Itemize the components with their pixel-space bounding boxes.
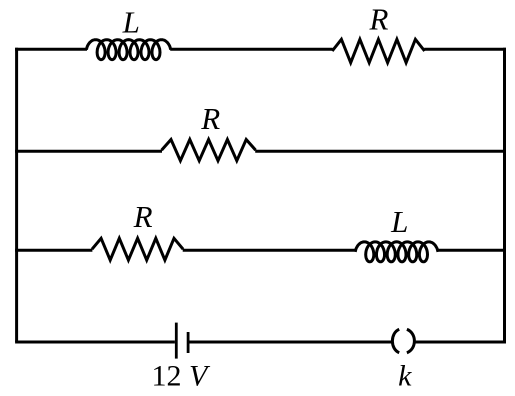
wire top-left segment: [15, 48, 87, 51]
wire top-middle segment: [170, 48, 332, 51]
wire right vertical: [503, 48, 506, 342]
wire bottom-left segment: [15, 341, 175, 344]
switch k left arc: [392, 329, 399, 353]
wire row3 middle segment: [183, 249, 356, 252]
svg-text:k: k: [398, 359, 412, 392]
battery B1 short plate: [187, 332, 190, 353]
inductor L1 coil: [86, 40, 170, 60]
wire bottom-middle segment: [190, 341, 393, 344]
wire row3 right segment: [437, 249, 506, 252]
svg-text:R: R: [369, 1, 389, 36]
svg-text:L: L: [390, 204, 408, 239]
wire left vertical: [15, 48, 18, 342]
wire bottom-right segment: [414, 341, 506, 344]
switch k right arc: [407, 329, 415, 353]
svg-text:L: L: [122, 4, 140, 39]
wire row2 right segment: [255, 150, 506, 153]
resistor R2 zigzag: [162, 140, 256, 161]
battery B1 long plate: [175, 323, 178, 359]
wire top-right segment: [424, 48, 506, 51]
wire row3 left segment: [15, 249, 92, 252]
resistor R1 zigzag: [332, 39, 424, 62]
svg-text:R: R: [200, 101, 220, 136]
resistor R3 zigzag: [92, 238, 183, 260]
wire row2 left segment: [15, 150, 162, 153]
svg-text:12 V: 12 V: [152, 360, 212, 393]
inductor L2 coil: [355, 242, 438, 262]
svg-text:R: R: [133, 199, 153, 234]
